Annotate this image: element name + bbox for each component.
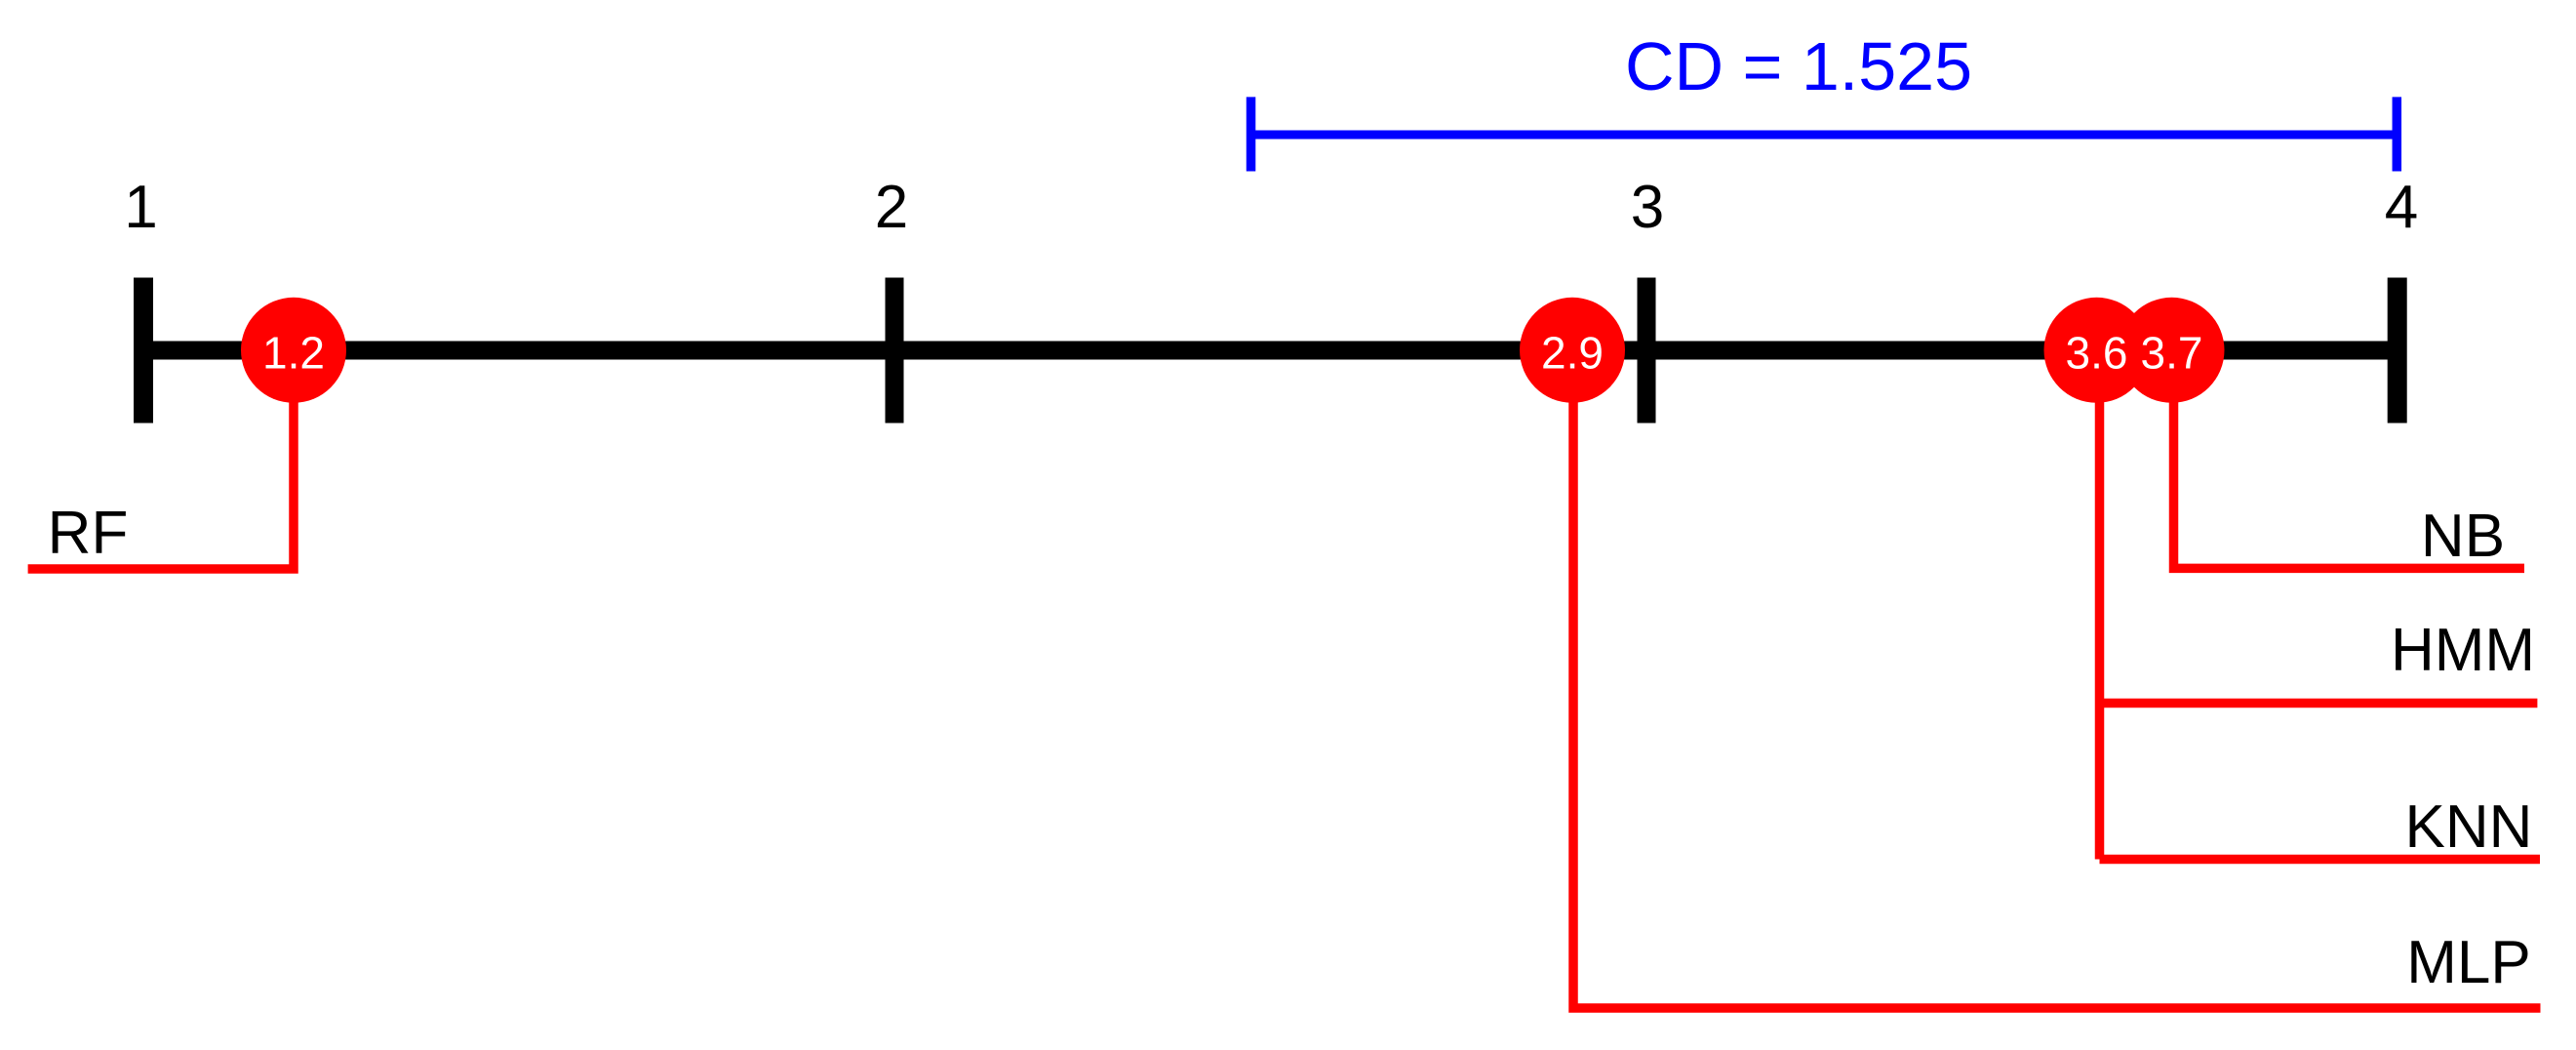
axis tick 4 (2388, 278, 2407, 424)
svg-text:2.9: 2.9 (1541, 328, 1604, 379)
axis tick 2 (886, 278, 904, 424)
axis tick 1 (134, 278, 153, 424)
RF connector line (28, 371, 294, 569)
MLP connector line (1573, 371, 2541, 1008)
svg-text:3.6: 3.6 (2066, 328, 2128, 379)
svg-text:4: 4 (2385, 174, 2418, 241)
svg-text:HMM: HMM (2391, 617, 2535, 684)
svg-text:RF: RF (48, 500, 129, 567)
CD bar horizontal line (1251, 131, 2398, 140)
NB connector line (2174, 371, 2525, 568)
svg-text:1.2: 1.2 (262, 328, 325, 379)
svg-text:KNN: KNN (2405, 793, 2533, 861)
HMM/KNN shared vertical line (2095, 371, 2105, 860)
svg-text:3.7: 3.7 (2141, 328, 2203, 379)
CD bar left cap (1247, 97, 1256, 171)
svg-text:3: 3 (1631, 174, 1664, 241)
rank marker RF 1.2 (241, 298, 346, 403)
svg-text:CD = 1.525: CD = 1.525 (1625, 28, 1972, 104)
rank marker HMM/KNN 3.6 (2044, 298, 2150, 403)
CD bar right cap (2393, 97, 2402, 171)
svg-text:1: 1 (124, 174, 157, 241)
KNN connector line (2100, 855, 2541, 865)
axis tick 3 (1638, 278, 1656, 424)
HMM connector line (2100, 699, 2538, 708)
svg-text:2: 2 (875, 174, 908, 241)
main axis line (143, 342, 2398, 360)
rank marker NB 3.7 (2120, 298, 2225, 403)
svg-text:MLP: MLP (2406, 929, 2530, 996)
svg-text:NB: NB (2421, 503, 2505, 570)
rank marker MLP 2.9 (1520, 298, 1625, 403)
